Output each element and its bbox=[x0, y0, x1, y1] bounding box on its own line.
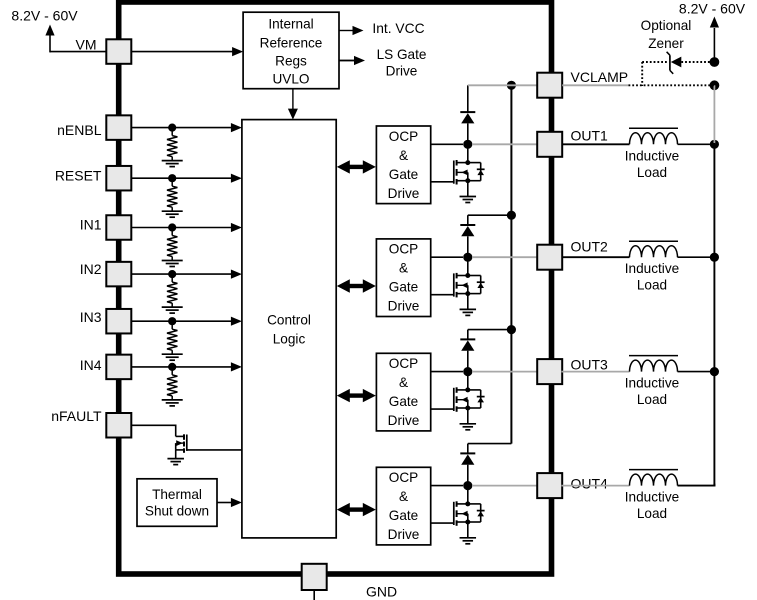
wire Internal Reference to Control Logic bbox=[292, 89, 294, 109]
ground (IN3 pull-down) bbox=[162, 353, 183, 355]
wire GND stub bbox=[313, 590, 315, 600]
node supply rail OUT1 bbox=[710, 140, 719, 149]
ground (RESET pull-down) bbox=[162, 210, 183, 212]
node IN4 pulldown junction bbox=[168, 363, 176, 371]
wire VM supply to VM pin bbox=[50, 51, 107, 53]
wire OUT2 node to pin bbox=[472, 256, 538, 258]
wire clamp stub (channel 2) bbox=[468, 214, 512, 216]
svg-text:OCP: OCP bbox=[389, 242, 418, 257]
body diode (Q1) bbox=[468, 162, 481, 164]
IC boundary (device outline) bbox=[119, 2, 552, 574]
ground (Q4 source) bbox=[460, 537, 477, 539]
svg-text:Drive: Drive bbox=[388, 413, 420, 428]
wire OUT3 node to pin bbox=[472, 371, 538, 373]
svg-text:Gate: Gate bbox=[389, 394, 418, 409]
wire IN3 to Control Logic bbox=[131, 320, 232, 322]
svg-text:8.2V - 60V: 8.2V - 60V bbox=[11, 8, 78, 24]
svg-text:&: & bbox=[399, 375, 408, 390]
bidirectional bus Control Logic - OCP 3 bbox=[349, 393, 363, 397]
wire OUT1 pin to inductor bbox=[562, 143, 630, 145]
svg-text:Shut down: Shut down bbox=[145, 504, 209, 519]
svg-text:VM: VM bbox=[76, 36, 97, 52]
block: OCP & Gate Drive (channel 1) bbox=[376, 126, 430, 204]
pin IN1 bbox=[106, 215, 131, 240]
ground (Q1 source) bbox=[460, 196, 477, 198]
block: OCP & Gate Drive (channel 4) bbox=[376, 467, 430, 545]
svg-text:OUT3: OUT3 bbox=[571, 357, 609, 373]
svg-text:nFAULT: nFAULT bbox=[51, 408, 102, 424]
svg-text:Zener: Zener bbox=[648, 36, 684, 51]
node clamp stub 3 on rail bbox=[507, 325, 516, 334]
wire OUT1 node to pin bbox=[472, 143, 538, 145]
svg-text:GND: GND bbox=[366, 584, 397, 600]
pull-down resistor (nENBL) bbox=[171, 131, 173, 136]
inductor L2 (Inductive Load 2) bbox=[630, 246, 678, 258]
block: OCP & Gate Drive (channel 2) bbox=[376, 239, 430, 317]
diode D2 (OUT2 clamp) bbox=[460, 224, 475, 226]
ground (IN4 pull-down) bbox=[162, 399, 183, 401]
wire RESET to Control Logic bbox=[131, 177, 232, 179]
svg-text:Internal: Internal bbox=[268, 17, 313, 32]
transistor Q4 (low-side driver 4) bbox=[467, 489, 469, 504]
wire clamp stub (channel 3) bbox=[468, 329, 512, 331]
wire OUT3 pin to inductor bbox=[562, 371, 630, 373]
wire IN2 to Control Logic bbox=[131, 273, 232, 275]
ground (nENBL pull-down) bbox=[162, 160, 183, 162]
diode D3 (OUT3 clamp) bbox=[460, 338, 475, 340]
wire IN4 to Control Logic bbox=[131, 366, 232, 368]
svg-text:Drive: Drive bbox=[386, 64, 418, 79]
ground (Q5 source) bbox=[167, 458, 184, 460]
internal VCLAMP rail bbox=[510, 85, 512, 443]
svg-text:Drive: Drive bbox=[388, 186, 420, 201]
arrow to Int. VCC bbox=[339, 30, 353, 32]
wire Q3 gate from OCP 3 bbox=[431, 408, 454, 410]
ground (Q3 source) bbox=[460, 423, 477, 425]
svg-text:Optional: Optional bbox=[641, 18, 692, 33]
wire Q1 source to ground bbox=[467, 181, 469, 197]
svg-text:Regs: Regs bbox=[275, 54, 307, 69]
svg-text:Load: Load bbox=[637, 392, 667, 407]
supply arrow (left, up) bbox=[49, 35, 51, 52]
wire D4 to OUT4 node bbox=[467, 465, 469, 486]
svg-text:VCLAMP: VCLAMP bbox=[571, 69, 629, 85]
pin OUT3 bbox=[537, 359, 562, 384]
svg-text:Logic: Logic bbox=[273, 331, 306, 346]
svg-text:IN1: IN1 bbox=[80, 216, 102, 232]
node RESET pulldown junction bbox=[168, 174, 176, 182]
svg-text:&: & bbox=[399, 148, 408, 163]
pin nENBL bbox=[106, 115, 131, 140]
node supply rail OUT3 bbox=[710, 367, 719, 376]
supply rail segment (OUT1 to OUT4) bbox=[713, 143, 715, 486]
block: Thermal Shut down bbox=[137, 479, 217, 527]
wire nENBL to Control Logic bbox=[131, 127, 232, 129]
transistor Q2 (low-side driver 2) bbox=[467, 260, 469, 275]
bidirectional bus Control Logic - OCP 1 bbox=[349, 165, 363, 169]
svg-text:Control: Control bbox=[267, 312, 311, 327]
wire Q1 gate from OCP 1 bbox=[431, 181, 454, 183]
pin IN4 bbox=[106, 355, 131, 380]
wire Q5 gate to Control Logic bbox=[187, 449, 242, 451]
pin VM bbox=[106, 39, 131, 64]
svg-text:Drive: Drive bbox=[388, 527, 420, 542]
wire D3 to OUT3 node bbox=[467, 351, 469, 372]
wire OCP 2 to OUT2 node bbox=[431, 256, 463, 258]
svg-text:Load: Load bbox=[637, 278, 667, 293]
transistor Q5 (nFAULT open-drain) bbox=[176, 435, 184, 437]
pull-down resistor (IN1) bbox=[171, 231, 173, 236]
svg-text:Gate: Gate bbox=[389, 508, 418, 523]
ground (Q2 source) bbox=[460, 308, 477, 310]
svg-text:OUT2: OUT2 bbox=[571, 239, 609, 255]
node IN1 pulldown junction bbox=[168, 223, 176, 231]
node OUT2 (internal) bbox=[463, 253, 472, 262]
pin VCLAMP bbox=[537, 73, 562, 98]
node OUT4 (internal) bbox=[463, 481, 472, 490]
svg-text:OCP: OCP bbox=[389, 129, 418, 144]
pin IN3 bbox=[106, 309, 131, 334]
svg-text:OCP: OCP bbox=[389, 470, 418, 485]
arrow to LS Gate Drive bbox=[339, 60, 354, 62]
wire D2 to OUT2 node bbox=[467, 236, 469, 257]
pin OUT4 bbox=[537, 473, 562, 498]
wire D1 to OUT1 node bbox=[467, 123, 469, 144]
wire OCP 1 to OUT1 node bbox=[431, 143, 463, 145]
ground (IN1 pull-down) bbox=[162, 260, 183, 262]
pull-down resistor (IN4) bbox=[171, 370, 173, 375]
svg-text:nENBL: nENBL bbox=[57, 122, 102, 138]
inductor L1 (Inductive Load 1) bbox=[630, 133, 678, 145]
wire Thermal Shut down to Control Logic bbox=[217, 502, 233, 504]
body diode (Q4) bbox=[468, 503, 481, 505]
wire OUT4 node to pin bbox=[472, 485, 538, 487]
svg-text:Drive: Drive bbox=[388, 299, 420, 314]
diode D4 (OUT4 clamp) bbox=[460, 452, 475, 454]
wire VM pin to Internal Reference Regs bbox=[131, 51, 233, 53]
dashed wire zener branch (top left) bbox=[642, 61, 667, 63]
ground (IN2 pull-down) bbox=[162, 306, 183, 308]
wire OCP 3 to OUT3 node bbox=[431, 371, 463, 373]
wire VCLAMP (internal) bbox=[468, 84, 538, 86]
inductor L3 (Inductive Load 3) bbox=[630, 360, 678, 371]
node OUT1 (internal) bbox=[463, 140, 472, 149]
svg-text:Inductive: Inductive bbox=[625, 376, 679, 391]
wire inductor L3 to supply rail bbox=[678, 371, 715, 373]
wire IN1 to Control Logic bbox=[131, 227, 232, 229]
svg-text:Gate: Gate bbox=[389, 167, 418, 182]
transistor Q1 (low-side driver 1) bbox=[467, 147, 469, 162]
block: Control Logic bbox=[242, 120, 336, 538]
svg-text:Load: Load bbox=[637, 506, 667, 521]
wire VCLAMP to zener network bbox=[562, 84, 628, 86]
node supply rail OUT2 bbox=[710, 253, 719, 262]
node clamp stub 2 on rail bbox=[507, 211, 516, 220]
pin OUT1 bbox=[537, 132, 562, 157]
pin OUT2 bbox=[537, 245, 562, 270]
svg-text:IN2: IN2 bbox=[80, 261, 102, 277]
svg-text:8.2V - 60V: 8.2V - 60V bbox=[679, 1, 746, 17]
wire inductor L4 to supply rail bbox=[678, 485, 716, 487]
svg-text:Load: Load bbox=[637, 165, 667, 180]
block: Internal Reference Regs UVLO bbox=[243, 12, 339, 89]
svg-text:Inductive: Inductive bbox=[625, 261, 679, 276]
dashed wire zener branch (vertical) bbox=[641, 62, 643, 86]
dashed wire VCLAMP to zener (bottom) bbox=[629, 84, 715, 86]
svg-text:Thermal: Thermal bbox=[152, 487, 202, 502]
wire Q4 gate from OCP 4 bbox=[431, 522, 454, 524]
body diode (Q2) bbox=[468, 275, 481, 277]
pin GND bbox=[302, 564, 327, 590]
node nENBL pulldown junction bbox=[168, 124, 176, 132]
wire OUT2 pin to inductor bbox=[562, 256, 630, 258]
wire inductor L1 to supply rail bbox=[678, 143, 715, 145]
zener diode DZ (optional) bbox=[669, 55, 671, 70]
svg-text:LS Gate: LS Gate bbox=[377, 47, 427, 62]
wire Q3 source to ground bbox=[467, 408, 469, 424]
bidirectional bus Control Logic - OCP 4 bbox=[349, 507, 363, 511]
transistor Q3 (low-side driver 3) bbox=[467, 375, 469, 390]
pin nFAULT bbox=[106, 413, 131, 438]
pin RESET bbox=[106, 166, 131, 191]
svg-text:Inductive: Inductive bbox=[625, 490, 679, 505]
inductor L4 (Inductive Load 4) bbox=[630, 474, 678, 485]
bidirectional bus Control Logic - OCP 2 bbox=[349, 284, 363, 288]
pull-down resistor (RESET) bbox=[171, 181, 173, 186]
supply rail segment (VCLAMP to OUT1) bbox=[713, 85, 715, 144]
svg-text:UVLO: UVLO bbox=[272, 72, 309, 87]
wire Q4 source to ground bbox=[467, 522, 469, 538]
dashed wire zener to rail (top right) bbox=[681, 61, 714, 63]
node OUT3 (internal) bbox=[463, 367, 472, 376]
supply arrow (right, up) bbox=[713, 28, 715, 63]
pull-down resistor (IN3) bbox=[171, 324, 173, 329]
wire VCLAMP rail to D1 bbox=[467, 85, 469, 112]
svg-text:Reference: Reference bbox=[260, 35, 323, 50]
diode D1 (OUT1 clamp) bbox=[460, 111, 475, 113]
svg-text:Gate: Gate bbox=[389, 280, 418, 295]
wire nFAULT to Q5 drain bbox=[131, 424, 175, 426]
wire inductor L2 to supply rail bbox=[678, 256, 715, 258]
wire OCP 4 to OUT4 node bbox=[431, 485, 463, 487]
node IN3 pulldown junction bbox=[168, 317, 176, 325]
node IN2 pulldown junction bbox=[168, 270, 176, 278]
svg-text:Int. VCC: Int. VCC bbox=[372, 21, 424, 36]
svg-text:IN3: IN3 bbox=[80, 309, 102, 325]
svg-text:OUT4: OUT4 bbox=[571, 476, 609, 492]
pin IN2 bbox=[106, 262, 131, 287]
body diode (Q3) bbox=[468, 389, 481, 391]
svg-text:IN4: IN4 bbox=[80, 357, 102, 373]
svg-text:&: & bbox=[399, 261, 408, 276]
node zener bottom on rail bbox=[710, 80, 720, 90]
svg-text:&: & bbox=[399, 489, 408, 504]
svg-text:OUT1: OUT1 bbox=[571, 127, 609, 143]
pull-down resistor (IN2) bbox=[171, 277, 173, 282]
svg-text:OCP: OCP bbox=[389, 356, 418, 371]
wire clamp stub (channel 4) bbox=[468, 443, 512, 445]
node zener top on rail bbox=[710, 57, 720, 67]
svg-text:Inductive: Inductive bbox=[625, 148, 679, 163]
wire Q2 source to ground bbox=[467, 294, 469, 310]
wire Q2 gate from OCP 2 bbox=[431, 294, 454, 296]
svg-text:RESET: RESET bbox=[55, 168, 102, 184]
wire OUT4 pin to inductor bbox=[562, 485, 630, 487]
block: OCP & Gate Drive (channel 3) bbox=[376, 353, 430, 431]
